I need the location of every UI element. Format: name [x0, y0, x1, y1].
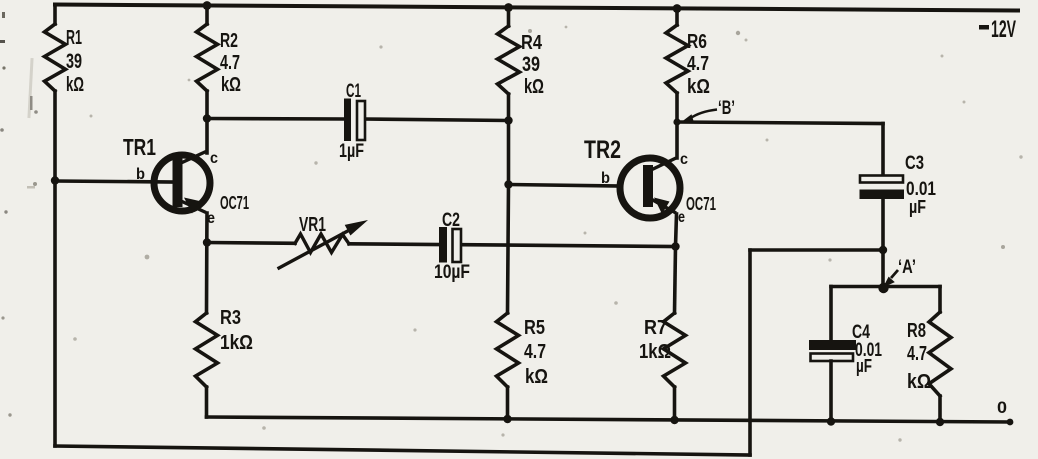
label C3 value	[905, 153, 936, 217]
svg-text:kΩ: kΩ	[687, 76, 710, 98]
wire C1 link	[207, 119, 509, 121]
svg-text:R4: R4	[521, 32, 543, 54]
wire left feedback column	[53, 5, 57, 447]
transistor TR1	[154, 152, 210, 214]
label C4 value	[852, 322, 882, 376]
svg-text:b: b	[601, 170, 610, 187]
resistor R7	[664, 313, 686, 387]
wire feedback riser	[748, 250, 752, 455]
svg-text:R2: R2	[220, 30, 238, 52]
svg-text:1kΩ: 1kΩ	[639, 341, 671, 363]
svg-text:4.7: 4.7	[524, 341, 546, 363]
svg-text:kΩ: kΩ	[525, 366, 548, 388]
svg-text:c: c	[680, 151, 688, 168]
label R6 value	[687, 31, 710, 98]
wire C4 bottom lead	[829, 361, 833, 422]
resistor R6	[666, 25, 688, 93]
label C1 value	[339, 81, 364, 162]
wire top supply rail	[55, 5, 1018, 11]
label R5 value	[524, 317, 548, 388]
wire TR1 base	[55, 181, 174, 182]
wire bottom feedback run	[55, 446, 750, 455]
wire R8 top lead	[938, 287, 942, 313]
svg-text:OC71: OC71	[220, 193, 249, 213]
svg-text:µF: µF	[909, 197, 926, 217]
wire C4 top lead	[829, 287, 833, 341]
svg-text:12V: 12V	[991, 16, 1016, 43]
svg-text:TR1: TR1	[123, 134, 156, 160]
svg-text:‘B’: ‘B’	[718, 98, 735, 119]
svg-text:kΩ: kΩ	[66, 74, 84, 96]
wire R6 column	[675, 9, 679, 159]
resistor R1	[45, 24, 66, 91]
svg-text:C1: C1	[346, 81, 361, 102]
wire node B run	[677, 122, 883, 176]
wire TR2 base	[509, 185, 622, 187]
label supply -12V	[979, 16, 1016, 43]
svg-text:VR1: VR1	[299, 214, 326, 236]
wire R5 bottom lead	[506, 387, 510, 419]
svg-text:C3: C3	[905, 153, 924, 174]
label R8 value	[907, 320, 931, 393]
potentiometer VR1	[279, 220, 368, 268]
wire bottom 0V rail	[207, 417, 1011, 422]
label R3 value	[220, 307, 253, 354]
label R2 value	[220, 30, 241, 96]
svg-text:4.7: 4.7	[907, 343, 927, 365]
label R7 value	[639, 317, 671, 363]
wire TR1 emitter column	[205, 213, 209, 243]
svg-text:10µF: 10µF	[434, 262, 470, 283]
resistor R2	[197, 24, 218, 91]
svg-text:R1: R1	[66, 27, 82, 49]
svg-text:39: 39	[522, 53, 540, 76]
wire C3 bottom lead	[881, 199, 885, 287]
svg-text:e: e	[207, 210, 215, 227]
transistor TR2	[620, 158, 680, 218]
capacitor C3	[860, 176, 905, 200]
svg-text:0: 0	[997, 398, 1007, 417]
wire emitter coupling run	[207, 243, 676, 247]
svg-text:kΩ: kΩ	[221, 74, 241, 96]
label R1 value	[66, 27, 84, 96]
svg-text:‘A’: ‘A’	[898, 257, 916, 278]
svg-text:R8: R8	[907, 320, 926, 342]
label C2 value	[434, 210, 470, 283]
svg-text:e: e	[678, 209, 685, 226]
svg-text:R5: R5	[524, 317, 545, 339]
svg-text:1µF: 1µF	[339, 141, 364, 162]
wire R7 column	[675, 247, 676, 421]
wire R8 bottom lead	[938, 396, 942, 422]
svg-text:39: 39	[66, 50, 82, 73]
svg-text:kΩ: kΩ	[524, 76, 544, 98]
svg-text:b: b	[136, 166, 145, 183]
label R4 value	[521, 32, 544, 98]
capacitor C1	[344, 99, 365, 142]
svg-text:R7: R7	[644, 317, 667, 339]
wire R4-R5 column	[508, 7, 509, 313]
svg-text:TR2: TR2	[584, 136, 621, 164]
wire R2 column	[205, 6, 209, 154]
wire parallel box top	[831, 285, 940, 289]
wire TR2 emitter column	[676, 214, 677, 247]
svg-text:C2: C2	[442, 210, 460, 231]
svg-text:OC71: OC71	[686, 194, 716, 214]
node B arrow	[681, 110, 717, 123]
wire R3 column	[205, 243, 209, 418]
node A arrow	[878, 270, 898, 293]
svg-text:kΩ: kΩ	[907, 371, 931, 393]
svg-text:1kΩ: 1kΩ	[220, 332, 253, 354]
svg-text:R3: R3	[220, 307, 241, 329]
resistor R4	[498, 26, 520, 94]
svg-text:µF: µF	[856, 356, 872, 376]
capacitor C4	[809, 340, 856, 361]
resistor R8	[929, 312, 951, 396]
wire node A to riser	[750, 248, 883, 252]
svg-text:4.7: 4.7	[687, 53, 709, 75]
svg-text:4.7: 4.7	[220, 52, 240, 74]
capacitor C2	[439, 227, 461, 263]
resistor R5	[497, 313, 519, 387]
resistor R3	[196, 313, 218, 387]
svg-text:R6: R6	[687, 31, 707, 53]
svg-text:c: c	[210, 150, 218, 167]
